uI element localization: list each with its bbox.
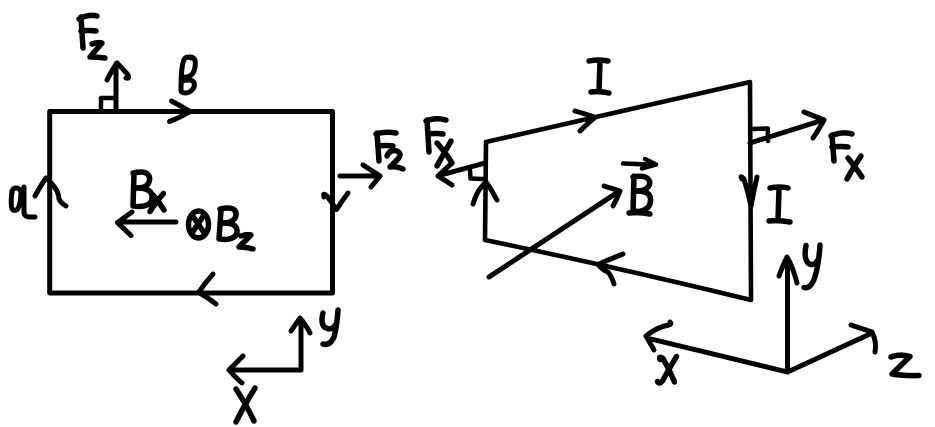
force arrow F_x right (up-right from top-right corner) (750, 112, 824, 143)
right-angle mark at F_z arrow (101, 98, 114, 110)
label F_z (79, 15, 105, 58)
slanted loop (right view) (485, 82, 751, 300)
rectangular loop (left view) (50, 112, 333, 294)
label B (top edge, script) (181, 57, 195, 93)
field arrow B (diagonal) (489, 186, 620, 277)
right-angle mark at right F_x arrow (752, 129, 768, 142)
wire arrowhead left edge of slanted loop (current up) (473, 182, 497, 204)
label a (left side) (11, 187, 35, 217)
label I (right) (769, 187, 790, 222)
force arrow F_z (up from top edge) (107, 63, 129, 110)
label F_x (right) (831, 133, 862, 179)
label F_x (left force on slanted loop) (426, 119, 452, 166)
wire arrowhead bottom edge slanted loop (current up-left) (598, 254, 623, 284)
label I (top) (589, 60, 609, 93)
wire arrowhead right edge slanted loop (current down) (741, 177, 757, 206)
label z (3D axes) (891, 355, 919, 375)
label y (left axes) (322, 310, 338, 344)
label x (3D axes) (658, 357, 677, 383)
label B_z (219, 208, 253, 249)
axes origin (left view coordinates) (229, 318, 310, 383)
right-angle mark at left F_x arrow (470, 170, 483, 179)
wire arrowhead top edge (current to the right) (170, 101, 191, 122)
wire arrowhead left edge (current up) (35, 178, 66, 206)
wire arrowhead right edge (current down) (324, 193, 348, 210)
wire arrowhead bottom edge (current to the left) (199, 274, 217, 304)
label x (left axes) (236, 388, 255, 422)
force arrow F_2 (right, out of right edge) (340, 165, 380, 187)
label y (3D axes) (804, 245, 820, 288)
label B with vector arrow (623, 159, 656, 214)
3D axes (right view coordinates) (646, 257, 876, 372)
field arrow B_x (pointing left) (118, 212, 177, 236)
label B_x (133, 172, 164, 212)
symbol circle-x B_z (into page) (189, 211, 209, 238)
wire arrowhead top edge slanted loop (current up-right) (575, 111, 595, 131)
label F_2 (376, 132, 403, 169)
force arrow F_x left (down-left from left edge) (438, 163, 485, 185)
